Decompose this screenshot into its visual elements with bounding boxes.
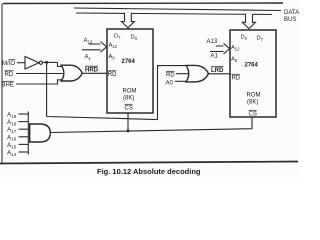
svg-text:DATA: DATA: [284, 10, 299, 16]
AND gate U6: [30, 124, 51, 142]
ROM2 label ROM (8K): [247, 93, 261, 106]
bus arrow A13-A1 into ROM1: [82, 42, 107, 53]
svg-text:RD: RD: [5, 72, 14, 78]
svg-text:A1: A1: [211, 54, 219, 60]
label BHE: [2, 81, 14, 88]
data bus line 1: [74, 8, 281, 11]
tick A17: [19, 128, 29, 130]
ROM1 pin RD: [108, 71, 117, 78]
label RD stub OR2: [166, 71, 175, 78]
data bus line 2: [76, 13, 272, 15]
svg-text:HRD: HRD: [85, 68, 99, 74]
svg-text:A19: A19: [7, 112, 17, 119]
wire inverter output: [43, 61, 58, 63]
svg-text:RD: RD: [232, 76, 241, 82]
svg-text:ROM: ROM: [123, 89, 137, 95]
svg-text:D7: D7: [257, 36, 264, 42]
svg-text:(8K): (8K): [247, 100, 258, 106]
ROM2 pin CS: [249, 110, 257, 117]
frame top border: [3, 2, 283, 5]
wire A0 stub into OR2: [175, 80, 187, 82]
svg-text:A0: A0: [109, 54, 116, 60]
svg-text:D7: D7: [114, 34, 121, 40]
svg-text:BHE: BHE: [2, 83, 14, 89]
svg-text:A16: A16: [7, 134, 17, 141]
node junction dot inverter output: [45, 61, 48, 64]
wire OR2 output to ROM2 RD: [209, 73, 231, 75]
ROM2 pin RD: [232, 74, 241, 81]
svg-text:A1: A1: [85, 55, 92, 62]
svg-text:M/IO: M/IO: [2, 61, 15, 67]
tick A16: [19, 136, 29, 138]
bus arrow into ROM1: [122, 13, 135, 28]
wire CS line from AND output to ROM2 CS: [50, 117, 252, 133]
svg-text:Fig. 10.12 Absolute decoding: Fig. 10.12 Absolute decoding: [97, 167, 201, 176]
bus arrow A13-A1 into ROM2: [210, 43, 230, 54]
svg-text:A13: A13: [207, 39, 218, 45]
bus arrow into ROM2: [242, 14, 255, 29]
svg-text:A0: A0: [231, 57, 238, 63]
frame left border: [1, 4, 3, 164]
wire M/IO to inverter: [17, 62, 25, 64]
wire RD into OR1 middle input: [16, 73, 64, 75]
caption separator line: [0, 162, 298, 164]
wire step into OR1 top input: [58, 62, 63, 66]
ROM chip U1 (2764) body: [107, 29, 153, 113]
svg-text:CS: CS: [125, 106, 133, 112]
label DATA BUS: [284, 10, 299, 23]
svg-text:ROM: ROM: [247, 93, 261, 99]
wire ROM1 CS stub: [127, 113, 129, 131]
wire BHE into OR1 bottom input: [16, 80, 62, 84]
svg-text:A18: A18: [7, 119, 17, 126]
wire routed MEMR: dot down, under ROM1, up to OR2: [47, 62, 187, 119]
OR gate U4 (HRD): [61, 65, 82, 81]
svg-text:A13: A13: [84, 38, 93, 45]
label M/IO: [2, 60, 15, 67]
svg-text:A17: A17: [7, 127, 17, 134]
wire RD stub into OR2: [176, 73, 189, 75]
svg-text:2764: 2764: [245, 63, 259, 69]
tick A15: [19, 143, 29, 145]
svg-text:2764: 2764: [122, 59, 136, 65]
svg-text:A12: A12: [109, 43, 118, 49]
svg-text:CS: CS: [249, 112, 257, 118]
svg-text:D0: D0: [131, 35, 138, 41]
svg-text:A12: A12: [231, 45, 240, 51]
tick A19: [19, 113, 29, 115]
svg-text:A0: A0: [166, 81, 174, 87]
node junction dot CS line: [127, 129, 130, 132]
svg-text:(8K): (8K): [123, 96, 134, 102]
svg-text:A15: A15: [7, 142, 17, 149]
ROM1 label ROM (8K): [123, 89, 137, 102]
svg-text:LRD: LRD: [211, 68, 224, 74]
tick A18: [19, 121, 29, 123]
OR gate U5 (LRD): [186, 65, 209, 82]
label RD: [5, 71, 14, 78]
inverter U3: [25, 57, 39, 70]
address input vertical line: [27, 112, 29, 155]
label HRD: [85, 66, 99, 73]
svg-text:BUS: BUS: [284, 17, 296, 23]
svg-text:D0: D0: [241, 35, 248, 41]
svg-text:RD: RD: [166, 73, 175, 79]
ROM1 pin CS: [125, 104, 133, 111]
ROM chip U2 (2764) body: [230, 30, 276, 117]
wire OR1 output to ROM1 RD: [82, 72, 107, 74]
tick A14: [19, 151, 29, 153]
label LRD: [211, 67, 224, 74]
svg-text:A14: A14: [7, 150, 17, 157]
svg-text:RD: RD: [108, 72, 117, 78]
